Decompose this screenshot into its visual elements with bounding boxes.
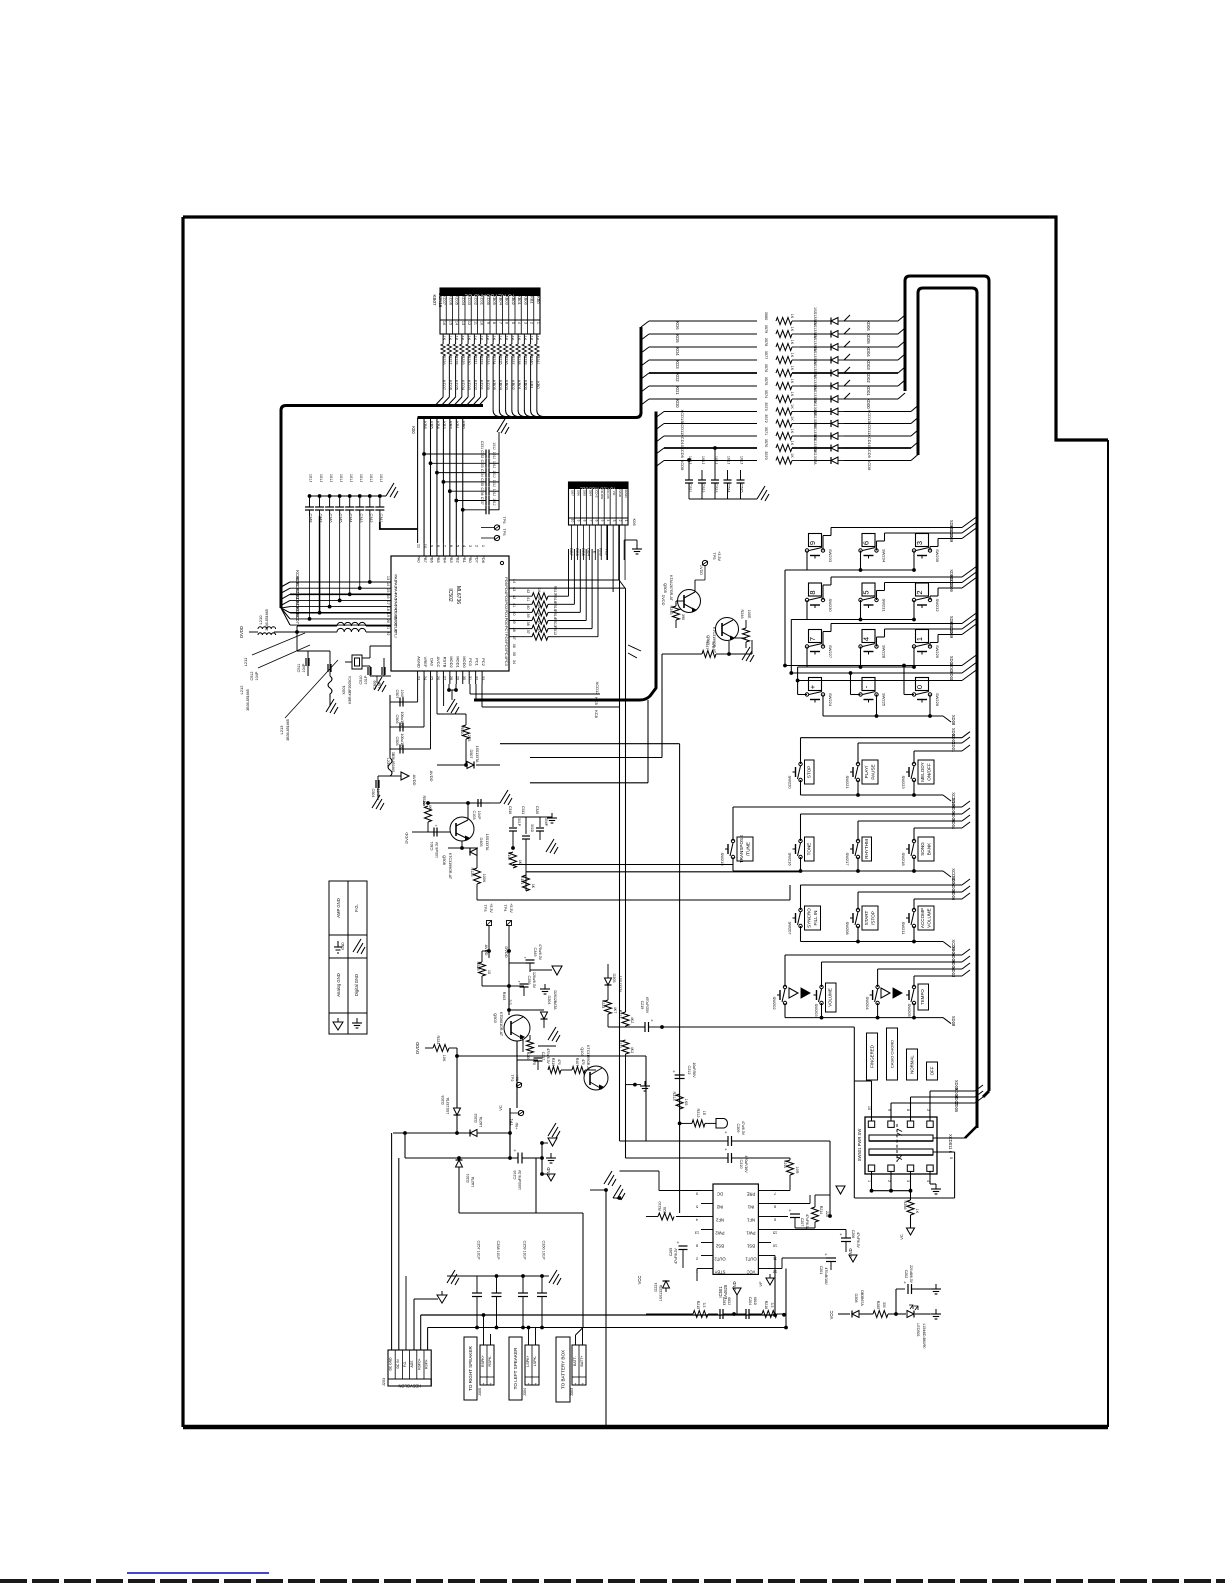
- svg-text:2: 2: [618, 520, 622, 522]
- legend AMP GND symbol: [337, 941, 339, 947]
- svg-text:101J: 101J: [349, 474, 353, 482]
- svg-text:KC04: KC04: [461, 295, 466, 306]
- mode label OFF: [927, 1062, 938, 1080]
- svg-text:ACCOMP: ACCOMP: [920, 908, 925, 928]
- svg-text:3: 3: [906, 1180, 910, 1182]
- svg-text:6: 6: [862, 541, 871, 545]
- VF flag near amp: [766, 1278, 774, 1285]
- svg-text:PC3: PC3: [504, 658, 509, 667]
- svg-text:SW205: SW205: [907, 1003, 912, 1017]
- cap C504 104P to ground: [378, 775, 390, 777]
- diode D507 1SS133TA: [437, 764, 466, 766]
- svg-text:R230: R230: [467, 355, 471, 364]
- svg-text:301P: 301P: [517, 818, 521, 827]
- svg-text:9: 9: [486, 322, 490, 324]
- svg-text:R520: R520: [422, 795, 426, 804]
- label TO RIGHT SPEAKER: [464, 1337, 477, 1400]
- svg-text:KC07: KC07: [295, 613, 300, 624]
- mode label NORMAL: [907, 1049, 918, 1080]
- svg-text:R512: R512: [553, 626, 557, 635]
- svg-text:36: 36: [512, 644, 516, 648]
- cap C349 470u/6.3V: [508, 958, 510, 1010]
- switch SW225 key -: [862, 678, 875, 691]
- cap C301 100u/6.3V: [420, 831, 428, 833]
- svg-text:R239: R239: [523, 355, 527, 364]
- capacitor bank C341-C348 101J: [310, 495, 380, 497]
- svg-text:VREF: VREF: [423, 657, 428, 668]
- svg-text:SW225: SW225: [882, 693, 887, 707]
- svg-text:3B36-851665: 3B36-851665: [391, 752, 395, 772]
- svg-text:XCD9: XCD9: [680, 447, 685, 458]
- svg-text:4K7: 4K7: [428, 805, 432, 812]
- svg-text:C283: C283: [722, 1297, 726, 1306]
- svg-text:KB07: KB07: [432, 294, 437, 306]
- VOLUME label box: [826, 983, 837, 1012]
- svg-text:37: 37: [526, 630, 530, 634]
- ground wire to frame bottom: [604, 1188, 608, 1192]
- svg-text:XD09: XD09: [949, 532, 954, 543]
- svg-text:C335: C335: [480, 478, 484, 486]
- svg-text:220: 220: [663, 1207, 667, 1213]
- svg-text:1A2TA: 1A2TA: [471, 1176, 475, 1187]
- svg-text:2: 2: [581, 1382, 583, 1386]
- ground left of cap row: [447, 1270, 459, 1285]
- svg-text:+: +: [808, 684, 817, 689]
- svg-text:R510: R510: [460, 726, 464, 735]
- ground for C331-C337: [498, 432, 500, 454]
- svg-text:C260 101P: C260 101P: [541, 1241, 545, 1260]
- svg-text:3.3: 3.3: [508, 1000, 512, 1005]
- svg-text:TP5: TP5: [502, 529, 506, 536]
- svg-text:C204: C204: [748, 1297, 752, 1306]
- svg-text:R214: R214: [819, 1206, 823, 1215]
- switch SW229 key 1: [916, 630, 929, 643]
- svg-text:5: 5: [862, 590, 871, 594]
- svg-text:C212: C212: [687, 1065, 691, 1074]
- svg-text:C311: C311: [521, 806, 525, 814]
- svg-text:Q508: Q508: [442, 855, 447, 866]
- long wire loop to switch groups 3: [530, 782, 648, 784]
- slider bars of SW501: [869, 1135, 933, 1141]
- svg-text:3B36-851665: 3B36-851665: [265, 609, 269, 631]
- svg-text:5: 5: [696, 1205, 698, 1209]
- switch SW217 RHYTHM: [856, 839, 859, 842]
- long speaker wire 1: [421, 1314, 775, 1316]
- ground for LED501: [935, 1309, 937, 1314]
- svg-text:F.G.: F.G.: [354, 904, 359, 912]
- svg-text:1K: 1K: [790, 366, 794, 371]
- keypad left collector verticals and row returns: [806, 551, 808, 571]
- left rail next to mode labels: [853, 1027, 855, 1198]
- svg-text:KC01: KC01: [480, 295, 485, 306]
- switch SW208 START//STOP: [856, 908, 859, 911]
- resistor R222 4K2: [622, 1012, 629, 1026]
- svg-text:CASIO CHORD: CASIO CHORD: [890, 1040, 895, 1068]
- svg-text:+5.3V: +5.3V: [489, 903, 493, 913]
- svg-text:+: +: [840, 1232, 843, 1237]
- switch group transport: STOP PLAY/PAUSE MELODY: [800, 738, 802, 764]
- svg-text:47uF/6.3V: 47uF/6.3V: [674, 1247, 678, 1263]
- svg-text:1K: 1K: [790, 429, 794, 434]
- svg-text:3.3: 3.3: [770, 1303, 774, 1308]
- connector J203 DC input: [388, 1350, 431, 1386]
- svg-text:+: +: [825, 1252, 828, 1257]
- svg-text:R216: R216: [764, 1301, 768, 1310]
- svg-text:DB4: DB4: [588, 490, 592, 496]
- mode label FINGERED: [867, 1033, 878, 1080]
- svg-text:101J: 101J: [492, 480, 496, 488]
- switch SW230 key 8: [809, 583, 822, 596]
- svg-text:KD1: KD1: [675, 386, 680, 395]
- svg-text:KB5: KB5: [429, 421, 434, 429]
- svg-text:NF2: NF2: [715, 1218, 724, 1223]
- svg-text:KBR-KBF2005C4: KBR-KBF2005C4: [348, 676, 352, 703]
- svg-text:41: 41: [512, 603, 516, 607]
- svg-text:15: 15: [773, 1231, 777, 1235]
- svg-text:0: 0: [915, 685, 924, 689]
- svg-text:8: 8: [492, 322, 496, 324]
- svg-text:KC9: KC9: [594, 697, 599, 706]
- svg-text:304P: 304P: [544, 818, 548, 827]
- svg-text:RSTB: RSTB: [442, 657, 447, 668]
- svg-text:C504: C504: [371, 788, 375, 797]
- svg-text:XD06: XD06: [954, 1102, 959, 1113]
- svg-text:PB2: PB2: [455, 555, 460, 563]
- svg-text:104P: 104P: [400, 690, 404, 699]
- svg-text:10: 10: [487, 970, 491, 974]
- svg-text:DB3B67A: DB3B67A: [860, 1290, 864, 1306]
- ground for C521-C525: [757, 486, 769, 501]
- svg-text:TO LEFT SPEAKER: TO LEFT SPEAKER: [513, 1347, 518, 1389]
- svg-text:18: 18: [386, 607, 390, 611]
- svg-text:KC00: KC00: [486, 295, 491, 306]
- svg-text:PB6: PB6: [430, 555, 435, 563]
- switch SW215 TRANSPOSE//TUNE: [731, 839, 734, 842]
- svg-text:R241: R241: [536, 355, 540, 364]
- svg-text:4: 4: [606, 520, 610, 522]
- coil L210 3B36-851665 with DVDD feed: [249, 631, 258, 633]
- svg-text:C205: C205: [669, 1248, 673, 1257]
- svg-text:C333: C333: [480, 460, 484, 468]
- diode row XCD11: [656, 424, 664, 430]
- svg-text:R285: R285: [876, 1301, 880, 1310]
- svg-text:1K: 1K: [442, 336, 446, 341]
- svg-text:9: 9: [808, 541, 817, 545]
- bus wires from resistors to bus: [442, 372, 444, 397]
- svg-text:PB4: PB4: [442, 555, 447, 563]
- open flag arrow: [716, 1119, 727, 1129]
- svg-text:GND: GND: [848, 1248, 853, 1257]
- svg-text:1K: 1K: [790, 379, 794, 384]
- svg-text:PW1: PW1: [746, 1231, 756, 1236]
- svg-text:XD00: XD00: [949, 671, 954, 682]
- cap C210 470uF/16V amp input 2: [626, 1157, 729, 1159]
- svg-text:13: 13: [461, 321, 465, 325]
- svg-text:PC2: PC2: [481, 658, 486, 667]
- svg-text:104P: 104P: [302, 663, 306, 672]
- svg-text:101J: 101J: [492, 452, 496, 460]
- svg-text:104P: 104P: [477, 811, 481, 820]
- svg-text:17: 17: [386, 600, 390, 604]
- svg-text:2: 2: [887, 1180, 891, 1182]
- svg-text:100u/10V: 100u/10V: [400, 712, 404, 728]
- svg-text:+5.3V: +5.3V: [509, 903, 513, 913]
- svg-text:1K: 1K: [504, 336, 508, 341]
- connector J305 right speaker: [480, 1345, 494, 1385]
- switch SW231 key 5: [862, 583, 875, 596]
- cap C206 47uF/6.3V: [771, 1229, 846, 1231]
- svg-text:PW2: PW2: [715, 1231, 725, 1236]
- cap C201 470uB/16U: [771, 1268, 782, 1270]
- GND arrow amp right: [849, 1255, 857, 1262]
- svg-text:1K: 1K: [492, 336, 496, 341]
- svg-text:1K: 1K: [517, 336, 521, 341]
- caps C511 C512 104P: [307, 651, 309, 676]
- svg-text:DA0: DA0: [430, 658, 435, 667]
- svg-text:KC05: KC05: [455, 295, 460, 306]
- diode row KD2: [641, 373, 649, 379]
- wire KB00 vertical to IC pin 11: [417, 418, 419, 544]
- svg-text:C202: C202: [904, 1270, 908, 1279]
- svg-text:L210: L210: [258, 615, 263, 625]
- svg-text:SW204: SW204: [865, 996, 870, 1010]
- svg-text:101J: 101J: [369, 474, 373, 482]
- switch SW234 key 6: [862, 534, 875, 547]
- switch group volume/tempo with arrows: [784, 955, 786, 987]
- svg-text:R215: R215: [696, 1301, 700, 1310]
- svg-text:RHYTHM: RHYTHM: [864, 839, 869, 859]
- svg-text:470uF/25V: 470uF/25V: [645, 997, 649, 1014]
- bus B1 row fan-out to IC port A: [281, 582, 290, 587]
- svg-text:C336: C336: [480, 488, 484, 496]
- svg-text:KB04: KB04: [498, 295, 503, 306]
- svg-text:SW208: SW208: [845, 921, 850, 935]
- svg-text:47uF/6.3V: 47uF/6.3V: [856, 1232, 860, 1248]
- svg-text:+: +: [789, 1208, 792, 1213]
- svg-text:470uB/16U: 470uB/16U: [824, 1268, 828, 1286]
- leader lines L211 L212 L213 labels: [252, 633, 305, 655]
- svg-text:1K: 1K: [537, 612, 541, 617]
- connector J303 battery box: [572, 1345, 586, 1385]
- svg-text:R210: R210: [658, 1201, 662, 1210]
- svg-text:2: 2: [534, 1382, 536, 1386]
- diode row XCD8: [656, 461, 664, 467]
- svg-text:XCD9: XCD9: [867, 447, 872, 458]
- tempo arrows: [881, 988, 890, 998]
- cap C212 10uF/50V on preamp line: [660, 1025, 664, 1029]
- svg-text:K06: K06: [632, 518, 637, 526]
- cap C209 47u/6.3V amp input: [620, 1140, 729, 1142]
- switch SW204 tempo down: [876, 985, 879, 988]
- svg-text:PA0: PA0: [417, 555, 422, 563]
- caps C509 C510 crystal load: [369, 646, 371, 658]
- svg-text:R149: R149: [507, 852, 511, 860]
- op-amp IC501 LA4625 power amplifier: [713, 1184, 758, 1274]
- svg-text:KB5VOLCN: KB5VOLCN: [398, 1384, 420, 1389]
- TEMPO label box: [918, 984, 929, 1010]
- svg-text:ON/OFF: ON/OFF: [927, 763, 932, 781]
- svg-text:NF1: NF1: [746, 1218, 755, 1223]
- svg-text:35: 35: [512, 652, 516, 656]
- svg-text:3B36-851665: 3B36-851665: [246, 689, 250, 711]
- svg-text:14: 14: [386, 582, 390, 586]
- svg-text:10R: 10R: [795, 1167, 799, 1174]
- svg-text:3571: 3571: [764, 427, 768, 435]
- svg-text:XD03: XD03: [951, 967, 956, 978]
- svg-text:PAUSE: PAUSE: [871, 764, 876, 779]
- svg-text:10: 10: [570, 519, 574, 523]
- resistor R247 47E: [662, 653, 702, 655]
- svg-text:KD3: KD3: [675, 360, 680, 369]
- svg-text:C349: C349: [533, 947, 537, 956]
- svg-text:LCD-E: LCD-E: [594, 488, 598, 497]
- svg-text:330: 330: [882, 1302, 886, 1308]
- svg-text:XCD8: XCD8: [867, 460, 872, 471]
- svg-text:13: 13: [695, 1231, 699, 1235]
- svg-text:39: 39: [526, 613, 530, 617]
- cap C255 120u/6.3V with ground: [509, 985, 524, 987]
- wire amp top loop: [829, 1141, 831, 1216]
- resistor network R513-R519 1K on LCD data lines: [509, 595, 532, 597]
- svg-text:R403: R403: [502, 992, 506, 1001]
- diode row KD3: [641, 360, 649, 366]
- keypad row output lines XD02 XD01 XD00: [785, 665, 962, 667]
- svg-text:3580: 3580: [764, 312, 768, 320]
- svg-text:FILL IN: FILL IN: [813, 911, 818, 926]
- svg-text:3572: 3572: [764, 414, 768, 422]
- svg-text:Q103: Q103: [580, 1047, 584, 1056]
- svg-text:NORMAL: NORMAL: [910, 1055, 915, 1074]
- svg-text:SW235: SW235: [935, 549, 940, 563]
- svg-text:DB7: DB7: [570, 490, 574, 496]
- resistor R214 220: [812, 1207, 819, 1222]
- svg-text:KC02: KC02: [473, 295, 478, 306]
- test point TP5 +3.3V: [702, 560, 707, 565]
- svg-text:TP3: TP3: [483, 905, 487, 912]
- resistor R246 100E with ground: [733, 637, 746, 639]
- cap C103 104P: [467, 803, 469, 820]
- svg-text:R224: R224: [436, 1035, 440, 1044]
- svg-text:DC GND: DC GND: [389, 1357, 393, 1371]
- long vertical wires DA outputs: [619, 580, 621, 1141]
- svg-text:C210: C210: [739, 1159, 743, 1168]
- svg-text:15: 15: [448, 321, 452, 325]
- svg-text:101J: 101J: [309, 474, 313, 482]
- svg-text:PC1: PC1: [475, 658, 480, 667]
- svg-text:11: 11: [473, 321, 477, 325]
- svg-text:1K: 1K: [498, 336, 502, 341]
- svg-text:1SS133TA: 1SS133TA: [659, 1284, 663, 1301]
- svg-text:R212: R212: [696, 1108, 700, 1117]
- svg-text:1: 1: [624, 520, 628, 522]
- ground MOD pins: [447, 688, 451, 692]
- svg-text:C337: C337: [480, 497, 484, 505]
- svg-text:4K2: 4K2: [630, 1047, 634, 1053]
- diode D203 1SS133TA: [454, 1108, 461, 1115]
- svg-text:1K: 1K: [461, 336, 465, 341]
- svg-text:C334: C334: [480, 469, 484, 477]
- svg-text:1K: 1K: [790, 392, 794, 397]
- svg-text:C216: C216: [513, 1170, 517, 1179]
- svg-text:C521: C521: [688, 483, 692, 492]
- diode D205 1SS133TA: [607, 973, 609, 978]
- cap C219 470uF/25V: [607, 1014, 609, 1027]
- connector CN506 TO LCD MODULE: [569, 482, 629, 525]
- svg-text:4: 4: [926, 1180, 930, 1182]
- svg-text:1: 1: [915, 637, 924, 641]
- svg-text:681D: 681D: [753, 1297, 757, 1306]
- svg-text:1E: 1E: [702, 1111, 706, 1116]
- crystal X501 KBR-KBF2005C4: [352, 655, 362, 669]
- svg-text:3579: 3579: [764, 325, 768, 333]
- bus U outer (key bus to panel): [905, 276, 989, 1091]
- svg-text:470u/6.3V: 470u/6.3V: [538, 944, 542, 961]
- svg-text:6: 6: [774, 1218, 776, 1222]
- svg-text:PB0: PB0: [468, 555, 473, 563]
- svg-text:6: 6: [594, 520, 598, 522]
- svg-text:2: 2: [489, 1382, 491, 1386]
- wires from LCD connector down to logic: [571, 525, 573, 560]
- wires PC0-PC2 to bus V2: [469, 684, 471, 694]
- svg-text:LVDD: LVDD: [618, 489, 622, 498]
- svg-text:R247: R247: [705, 640, 709, 649]
- svg-text:9: 9: [887, 1109, 891, 1111]
- switch SW224 key +: [809, 678, 822, 691]
- svg-text:3575: 3575: [764, 377, 768, 385]
- svg-text:X501: X501: [341, 685, 346, 695]
- svg-text:SW217: SW217: [845, 852, 850, 866]
- svg-text:TP6: TP6: [502, 517, 506, 524]
- svg-text:R525: R525: [476, 961, 480, 970]
- svg-text:C511: C511: [297, 664, 301, 673]
- svg-text:7: 7: [498, 322, 502, 324]
- svg-text:KD0: KD0: [675, 399, 680, 408]
- svg-text:LED501: LED501: [916, 1323, 920, 1337]
- svg-text:34: 34: [512, 660, 516, 664]
- svg-text:1K: 1K: [473, 336, 477, 341]
- svg-text:J304: J304: [523, 1388, 527, 1396]
- svg-text:1K: 1K: [531, 884, 535, 889]
- svg-text:2: 2: [696, 1257, 698, 1261]
- analog gnd triangle amp right: [836, 1186, 845, 1194]
- svg-text:3570: 3570: [764, 451, 768, 459]
- svg-text:+: +: [904, 1280, 907, 1285]
- svg-text:PB3: PB3: [449, 555, 454, 563]
- transistor Q103 KTC3199GR-AT: [584, 1066, 608, 1090]
- wire from C216 down to battery line: [535, 1158, 537, 1213]
- diode row XCD13: [656, 412, 664, 418]
- svg-text:SW211: SW211: [901, 922, 906, 936]
- svg-text:TEMPO: TEMPO: [920, 989, 925, 1005]
- svg-text:BS2: BS2: [715, 1244, 724, 1249]
- border frame of schematic page: [183, 217, 1108, 440]
- LCD connector lower wires: [623, 540, 625, 560]
- svg-text:3B36-851665: 3B36-851665: [286, 719, 290, 741]
- resistor R245 390: [676, 600, 684, 602]
- svg-text:1K: 1K: [529, 336, 533, 341]
- svg-text:VC: VC: [899, 1234, 904, 1240]
- svg-text:100K: 100K: [482, 874, 486, 883]
- svg-text:C258 101P: C258 101P: [496, 1241, 500, 1260]
- svg-text:20: 20: [386, 619, 390, 623]
- svg-text:C510: C510: [359, 675, 363, 684]
- svg-text:1K: 1K: [536, 336, 540, 341]
- svg-text:TONE: TONE: [807, 843, 812, 856]
- svg-text:C505: C505: [395, 736, 399, 745]
- svg-text:1K: 1K: [511, 336, 515, 341]
- svg-text:1K: 1K: [790, 340, 794, 345]
- svg-text:XCD8: XCD8: [680, 460, 685, 471]
